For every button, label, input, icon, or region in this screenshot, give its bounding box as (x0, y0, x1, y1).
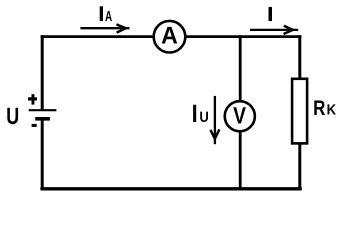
battery U (voltage source plates) (29, 110, 57, 119)
battery minus sign (32, 124, 37, 127)
wire right upper (top wire to resistor RK) (298, 35, 301, 80)
resistor RK (rectangle body) (292, 79, 307, 144)
wire top (node between source, ammeter, junction, resistor) (41, 35, 302, 38)
voltmeter letter V (233, 107, 246, 123)
wire left upper (source + terminal to top wire) (41, 35, 44, 110)
label U (source voltage) (7, 108, 18, 125)
wire voltmeter branch upper (junction to voltmeter) (239, 35, 242, 102)
ammeter letter A (162, 27, 178, 44)
arrow IU (current direction down) (210, 96, 219, 144)
wire right lower (resistor RK to bottom wire) (298, 143, 301, 190)
label R of RK (314, 101, 325, 116)
label I (load current) (269, 7, 273, 21)
wire left lower (source - terminal to bottom wire) (41, 119, 44, 190)
voltmeter V (circle body) (225, 101, 255, 131)
ammeter A (circle body) (154, 21, 186, 53)
arrow I (current direction right) (250, 26, 298, 34)
wire bottom (return net) (40, 187, 301, 190)
label I of IA (ammeter branch current) (100, 6, 103, 21)
battery plus sign (28, 94, 37, 104)
label A subscript of IA (105, 11, 112, 21)
label K subscript of RK (328, 104, 337, 114)
arrow IA (current direction right) (80, 24, 129, 32)
label U subscript of IU (200, 112, 208, 122)
label I of IU (voltmeter branch current) (193, 105, 196, 122)
wire voltmeter branch lower (voltmeter to bottom wire) (239, 130, 242, 190)
